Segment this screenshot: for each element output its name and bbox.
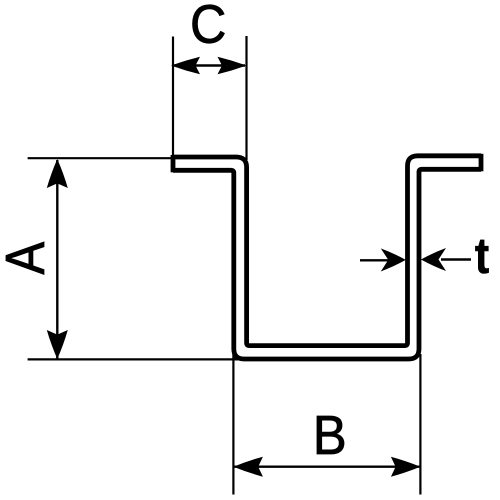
dimension A label (rotated)	[6, 242, 44, 274]
dimension t label	[475, 240, 488, 274]
C extension line left	[172, 37, 174, 158]
profile left end cap	[171, 155, 176, 172]
A extension line bottom	[28, 358, 238, 360]
C arrowhead left	[171, 57, 200, 75]
C arrowhead right	[218, 57, 247, 75]
B extension line right	[419, 354, 421, 495]
dimension B label	[317, 416, 344, 454]
B dimension arrow shaft	[234, 466, 419, 468]
A arrowhead down	[47, 330, 68, 359]
B arrowhead right	[391, 457, 421, 477]
B extension line left	[232, 354, 234, 495]
dimension C label	[193, 5, 225, 43]
hat-channel profile: top-surface contour (flange top / left wall right / channel floor top / right wall left / right flange top)	[173, 156, 481, 346]
t arrowhead right (points left at wall)	[421, 248, 446, 271]
C dimension arrow shaft	[174, 64, 245, 66]
A arrowhead up	[47, 159, 68, 188]
B arrowhead left	[233, 457, 263, 477]
C extension line right	[245, 36, 247, 160]
t arrowhead left (points right at wall)	[381, 248, 406, 271]
profile right end cap	[479, 154, 484, 172]
hat-channel profile: bottom-surface contour (flange bottom / left wall left / channel floor bottom / right wall right / right flange bottom)	[173, 169, 481, 359]
t arrow right shaft	[441, 258, 471, 260]
A dimension arrow shaft	[56, 160, 58, 359]
t arrow left shaft	[360, 259, 390, 261]
A extension line top	[28, 157, 174, 159]
